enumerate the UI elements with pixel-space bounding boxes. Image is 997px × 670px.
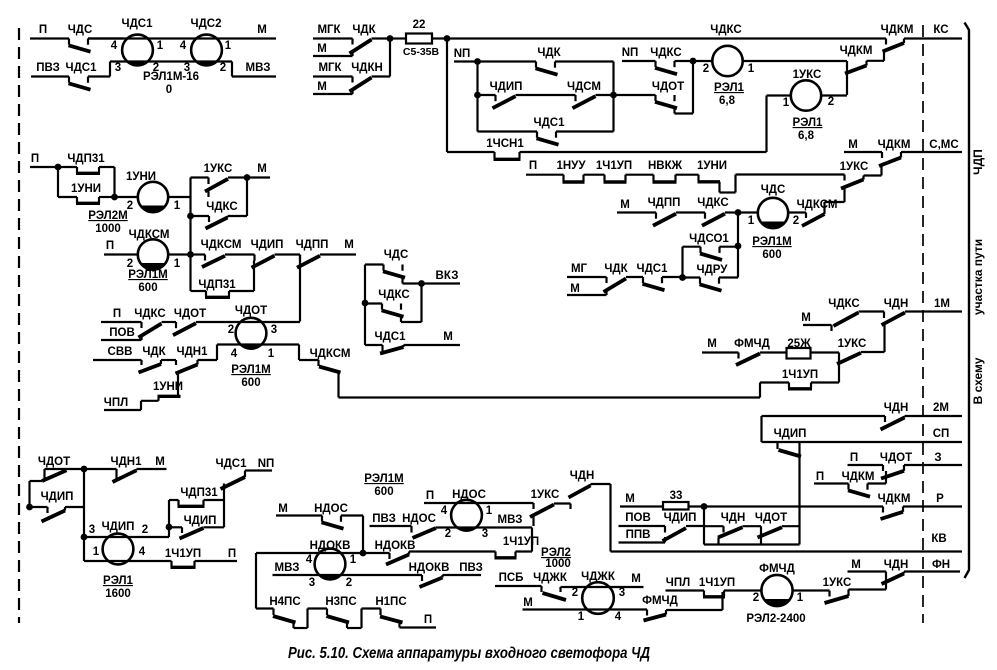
svg-text:РЭЛ1: РЭЛ1: [714, 82, 744, 94]
wire step: [867, 60, 885, 62]
riser: [441, 575, 443, 578]
wire top branch: [478, 60, 537, 62]
svg-text:1: 1: [268, 348, 275, 360]
svg-text:РЭЛ1М: РЭЛ1М: [231, 364, 270, 376]
wire coil pin1: [743, 60, 848, 62]
svg-text:РЭЛ1М-16: РЭЛ1М-16: [143, 71, 199, 83]
contact НДОКВ: [386, 555, 409, 565]
contact 1УКС: [825, 596, 849, 603]
tick: [410, 526, 412, 533]
riser: [903, 572, 905, 574]
wire top chord through: [84, 536, 169, 538]
tick: [181, 527, 183, 533]
svg-text:Н4ПС: Н4ПС: [269, 596, 300, 608]
changeover contact ЧДКН: [351, 77, 353, 83]
contact ЧДКСМ: [802, 214, 825, 226]
node: [187, 213, 194, 220]
coil ФМЧД (РЭЛ2-2400): [761, 575, 792, 606]
wire riser to chord: [216, 345, 218, 361]
contact ЧДН1: [176, 365, 198, 374]
contact ЧДН: [882, 574, 905, 585]
wire row2: [31, 75, 69, 77]
coil НДОКВ (РЭЛ2 1000?): [315, 549, 346, 580]
contact ЧДКСМ (front): [319, 367, 341, 373]
svg-text:2: 2: [828, 96, 834, 108]
svg-text:П: П: [424, 614, 432, 626]
svg-text:ЧПЛ: ЧПЛ: [666, 577, 690, 589]
svg-text:4: 4: [180, 40, 187, 52]
svg-text:1Ч1УП: 1Ч1УП: [782, 369, 818, 381]
wire: [275, 253, 301, 255]
svg-text:ЧДПП: ЧДПП: [648, 197, 681, 209]
contact 1НУУ (bar): [562, 175, 564, 182]
svg-text:ЧДС: ЧДС: [384, 249, 409, 261]
svg-text:ЧДКН: ЧДКН: [351, 62, 383, 74]
wire ЧПЛ lead: [666, 589, 705, 591]
wire: [191, 253, 206, 255]
contact 1Ч1УП (bar): [603, 175, 605, 182]
wire ВКЗ stub: [422, 282, 461, 284]
svg-text:ФМЧД: ФМЧД: [759, 563, 795, 575]
svg-text:РЭЛ2М: РЭЛ2М: [88, 210, 127, 222]
contact ЧДИП (back): [494, 95, 496, 101]
wire: [256, 607, 274, 609]
svg-text:ФМЧД: ФМЧД: [642, 595, 678, 607]
svg-text:ЧДС1: ЧДС1: [637, 263, 669, 275]
tick: [883, 312, 885, 319]
svg-text:2: 2: [793, 215, 799, 227]
wire right rail: [113, 167, 115, 197]
wire: [676, 211, 705, 213]
wire: [141, 400, 159, 402]
wire: [555, 60, 614, 62]
wire: [88, 37, 123, 39]
svg-text:МВЗ: МВЗ: [275, 562, 300, 574]
svg-text:ЧДКМ: ЧДКМ: [840, 45, 873, 57]
svg-text:НДОКВ: НДОКВ: [310, 540, 351, 552]
svg-text:ЧДИП: ЧДИП: [41, 491, 74, 503]
svg-text:С,МС: С,МС: [929, 139, 958, 151]
wire ППВ lead: [619, 541, 666, 543]
svg-text:6,8: 6,8: [798, 130, 815, 142]
wire riser/tick: [885, 572, 887, 590]
svg-text:ЧДС1: ЧДС1: [534, 117, 566, 129]
svg-text:1: 1: [578, 611, 585, 623]
contact 1ЧСН1 (bar): [493, 152, 495, 159]
tick: [207, 178, 209, 185]
tick: [43, 469, 45, 479]
wire М stub: [404, 344, 461, 346]
svg-text:РЭЛ1: РЭЛ1: [793, 117, 823, 129]
svg-text:М: М: [631, 573, 641, 585]
svg-text:4: 4: [615, 611, 622, 623]
wire to КС: [904, 37, 962, 39]
tick: [664, 526, 666, 533]
node left rail: [362, 300, 369, 307]
wire ПВЗ stub: [443, 574, 482, 576]
wire: [760, 351, 787, 353]
wire lower branch: [365, 302, 382, 304]
wire to МВЗ: [232, 75, 276, 77]
wire: [760, 381, 789, 383]
svg-text:ПОВ: ПОВ: [625, 512, 651, 524]
contact ЧДОТ: [881, 471, 904, 479]
wire to ФН: [904, 570, 960, 572]
wire left rail: [57, 167, 59, 197]
wire МВЗ bottom chord: [273, 574, 423, 576]
svg-text:NП: NП: [454, 48, 471, 60]
wire: [556, 130, 614, 132]
svg-text:П: П: [106, 240, 114, 252]
wire ЧДОТ lead: [614, 94, 656, 96]
wire branch: [191, 290, 207, 292]
svg-text:ПВЗ: ПВЗ: [36, 62, 60, 74]
svg-text:ЧДК: ЧДК: [537, 47, 561, 59]
svg-text:М: М: [344, 239, 354, 251]
wire vertical: [703, 507, 705, 545]
svg-text:РЭЛ1М: РЭЛ1М: [752, 236, 791, 248]
wire step: [861, 351, 885, 353]
riser 3: [900, 152, 902, 158]
contact 1Ч1УП (bar): [494, 552, 496, 558]
wire top chord through: [561, 586, 644, 588]
node junction: [387, 35, 394, 42]
wire: [99, 166, 115, 168]
svg-text:МВЗ: МВЗ: [498, 514, 523, 526]
wire: [704, 525, 724, 527]
contact ЧДП31 (bar) 2: [177, 500, 179, 506]
svg-text:РЭЛ1: РЭЛ1: [103, 575, 133, 587]
contact 1УНИ (bar, stepped): [697, 175, 699, 181]
node ЧДСО1: [735, 243, 742, 250]
wire bottom branch: [478, 130, 538, 132]
svg-text:600: 600: [241, 377, 260, 389]
tick: [208, 216, 210, 222]
svg-text:ЧДОТ: ЧДОТ: [755, 512, 787, 524]
wire МГК lead: [313, 37, 353, 39]
tick: [885, 39, 887, 45]
tick: [646, 610, 648, 616]
wire: [432, 37, 447, 39]
tick: [846, 61, 848, 67]
node ВКЗ: [418, 280, 425, 287]
svg-text:РЭЛ2-2400: РЭЛ2-2400: [746, 613, 805, 625]
tick: [388, 553, 390, 559]
node: [735, 209, 742, 216]
wire drop: [765, 96, 767, 153]
contact ЧДП31 (bar): [76, 167, 78, 173]
wire П lead: [848, 464, 884, 466]
wire ЧПЛ lead: [104, 409, 141, 411]
svg-text:ФМЧД: ФМЧД: [734, 338, 770, 350]
svg-text:1УКС: 1УКС: [840, 161, 869, 173]
wire: [675, 112, 694, 114]
svg-text:М: М: [707, 338, 717, 350]
riser from coil wire: [207, 192, 209, 198]
contact ЧДКС: [206, 218, 228, 229]
node М: [244, 174, 251, 181]
wire to coil: [675, 60, 714, 62]
svg-text:ЧДИП: ЧДИП: [251, 239, 284, 251]
wire: [409, 550, 496, 552]
wire long vertical: [798, 443, 800, 545]
wire: [225, 253, 255, 255]
wire bottom chord: [217, 343, 299, 345]
tick: [843, 175, 845, 181]
svg-text:ЧДК: ЧДК: [142, 346, 166, 358]
wire: [683, 276, 701, 278]
contact ФМЧД: [644, 615, 667, 621]
svg-text:ЧДКС: ЧДКС: [828, 298, 859, 310]
wire riser 2: [838, 359, 840, 383]
svg-text:ЧПЛ: ЧПЛ: [104, 397, 128, 409]
contact Н4ПС: [272, 609, 274, 616]
contact 1Ч1УП (bar) 2: [703, 591, 705, 597]
wire: [198, 359, 218, 361]
tick: [881, 152, 883, 158]
contact ЧДКМ (front): [847, 484, 849, 490]
wire step right: [231, 62, 233, 77]
wire riser to ЧДИП tick: [253, 261, 255, 292]
riser: [160, 360, 162, 364]
svg-text:С5-35В: С5-35В: [403, 46, 440, 58]
riser/tick: [760, 526, 762, 544]
tick: [46, 507, 48, 513]
wire row1 through coils: [88, 37, 276, 39]
svg-text:ФН: ФН: [932, 559, 950, 571]
svg-text:ЧДН: ЧДН: [884, 402, 909, 414]
wire: [626, 276, 643, 278]
svg-text:ЧДП: ЧДП: [971, 149, 985, 175]
svg-text:1УКС: 1УКС: [823, 577, 852, 589]
contact ЧДС (front): [382, 265, 384, 271]
wire drop to ЧДОТ coil: [299, 255, 301, 322]
riser 2: [880, 166, 882, 176]
contact ЧДКМ: [879, 158, 901, 167]
wire: [162, 321, 177, 323]
wire top rail ЧДКС: [447, 37, 886, 39]
svg-text:2: 2: [228, 324, 234, 336]
wire: [683, 246, 701, 248]
wire to coil: [115, 196, 138, 198]
svg-text:600: 600: [138, 282, 157, 294]
wire lower lead: [30, 480, 43, 482]
wire: [30, 506, 48, 508]
wire МГ lead: [567, 276, 607, 278]
coil ЧДИП (РЭЛ1 1600): [103, 534, 134, 565]
svg-text:ЧДКС: ЧДКС: [697, 197, 728, 209]
wire drop: [401, 278, 403, 284]
svg-text:1: 1: [225, 40, 232, 52]
wire to coil through: [196, 321, 300, 323]
svg-text:ЧДС1: ЧДС1: [122, 18, 154, 30]
wire П lead top chord: [424, 502, 534, 504]
svg-text:ПВЗ: ПВЗ: [459, 562, 483, 574]
wire riser: [177, 374, 179, 397]
svg-text:З: З: [934, 452, 941, 464]
wire: [743, 525, 762, 527]
wire ПОВ lead: [619, 525, 666, 527]
svg-text:ЧДН1: ЧДН1: [111, 456, 143, 468]
contact ЧДСО1 (front): [699, 247, 701, 253]
svg-text:1УКС: 1УКС: [204, 163, 233, 175]
wire top branch: [191, 176, 209, 178]
svg-text:1: 1: [350, 554, 357, 566]
svg-text:СП: СП: [933, 428, 950, 440]
wire step: [864, 174, 882, 176]
svg-text:П: П: [529, 160, 537, 172]
riser: [135, 469, 137, 470]
tick: [115, 469, 117, 479]
wire: [104, 253, 138, 255]
tick: [421, 575, 423, 581]
svg-text:1: 1: [93, 546, 100, 558]
riser: [903, 465, 905, 471]
wire СВВ lead: [93, 359, 142, 361]
svg-text:1ЧСН1: 1ЧСН1: [486, 138, 524, 150]
svg-text:1НУУ: 1НУУ: [556, 160, 586, 172]
wire drop to ПВЗ row: [532, 514, 534, 526]
wire top branch: [58, 166, 77, 168]
contact Н3ПС: [326, 609, 328, 616]
wire step: [591, 483, 611, 485]
wire: [662, 276, 683, 278]
svg-text:1УКС: 1УКС: [531, 489, 560, 501]
svg-text:ЧДКМ: ЧДКМ: [881, 24, 914, 36]
wire pin1: [168, 253, 191, 255]
contact 1УНИ (bar): [158, 395, 181, 398]
wire М stub: [247, 176, 270, 178]
wire vertical: [83, 469, 85, 537]
riser: [847, 590, 849, 597]
svg-text:ЧДС: ЧДС: [68, 24, 93, 36]
wire riser: [885, 471, 887, 484]
svg-text:ЧДН: ЧДН: [570, 470, 595, 482]
node: [679, 274, 686, 281]
svg-text:М: М: [155, 456, 165, 468]
svg-text:2: 2: [127, 200, 133, 212]
svg-text:1: 1: [157, 40, 164, 52]
svg-text:2: 2: [142, 524, 148, 536]
svg-text:3: 3: [115, 62, 121, 74]
wire 2М rail: [762, 415, 886, 417]
svg-text:3: 3: [271, 324, 277, 336]
wire: [596, 94, 614, 96]
svg-text:НДОС: НДОС: [314, 503, 348, 515]
contact 1Ч1УП (bar) 3: [170, 561, 172, 567]
svg-text:ЧДП31: ЧДП31: [67, 153, 105, 165]
contact ЧДОТ: [42, 470, 67, 481]
contact 1УКС: [530, 505, 554, 518]
svg-text:1: 1: [174, 258, 181, 270]
node: [81, 466, 88, 473]
contact ЧДН: [718, 527, 743, 537]
wire riser from М chain: [883, 325, 885, 352]
svg-text:ЧДОТ: ЧДОТ: [880, 452, 912, 464]
riser: [865, 61, 867, 66]
riser: [823, 202, 825, 214]
svg-text:участка пути: участка пути: [971, 239, 985, 315]
wire: [161, 359, 176, 361]
wire step: [157, 396, 159, 401]
svg-text:НДОС: НДОС: [402, 513, 436, 525]
wire drop: [362, 516, 364, 554]
wire: [84, 468, 117, 470]
riser 2: [883, 52, 885, 61]
contact ЧДОТ (back): [175, 322, 177, 328]
contact 1Ч1УП (bar): [788, 383, 790, 389]
wire mid branch: [478, 94, 496, 96]
wire: [666, 609, 723, 611]
wire: [403, 282, 422, 284]
svg-text:М: М: [848, 139, 858, 151]
svg-text:В схему: В схему: [971, 357, 985, 404]
wire: [719, 276, 738, 278]
wire: [516, 550, 533, 552]
changeover contact ЧДИП: [664, 537, 666, 543]
wire pin1: [767, 94, 792, 96]
wire right riser: [223, 484, 225, 528]
resistor 22 С5-35В: [406, 34, 432, 44]
svg-text:1: 1: [783, 97, 790, 109]
wire СП rail: [762, 441, 963, 443]
tick: [737, 353, 739, 359]
wire pin2: [788, 211, 806, 213]
svg-text:ЧДКС: ЧДКС: [206, 201, 237, 213]
wire drop: [673, 108, 675, 114]
svg-text:ЧДИП: ЧДИП: [664, 512, 697, 524]
node: [55, 164, 62, 171]
wire М lead: [567, 294, 607, 296]
coil ЧДС (РЭЛ1М 600): [758, 198, 788, 228]
svg-text:ЧДОТ: ЧДОТ: [38, 456, 70, 468]
tick: [830, 325, 832, 331]
wire ВКЗ left rail: [364, 265, 366, 340]
wire: [584, 174, 605, 176]
wire М lead: [848, 570, 887, 572]
wire: [720, 246, 739, 248]
wire top branch: [365, 263, 384, 265]
svg-text:П: П: [113, 308, 121, 320]
tick: [204, 255, 206, 261]
svg-text:РЭЛ1М: РЭЛ1М: [364, 473, 403, 485]
svg-text:КС: КС: [933, 24, 948, 36]
svg-text:2: 2: [703, 63, 709, 75]
svg-text:ЧДКМ: ЧДКМ: [878, 139, 911, 151]
right boundary dashed line: [922, 25, 924, 623]
tick 2: [559, 587, 561, 592]
tick: [569, 504, 571, 510]
svg-text:4: 4: [231, 348, 238, 360]
wire riser to М node: [246, 178, 248, 217]
wire М stub: [320, 253, 356, 255]
wire Р rail: [689, 505, 884, 507]
wire: [65, 506, 84, 508]
node mid right: [610, 92, 617, 99]
contact ЧДС1 2: [221, 477, 246, 489]
riser: [717, 538, 719, 545]
svg-text:Рис. 5.10. Схема аппаратуры вх: Рис. 5.10. Схема аппаратуры входного све…: [288, 645, 650, 662]
contact ЧДИП (front): [779, 450, 802, 457]
node coil: [81, 534, 88, 541]
contact Н1ПС: [379, 609, 381, 616]
svg-text:1УКС: 1УКС: [838, 338, 867, 350]
svg-text:4: 4: [306, 554, 313, 566]
svg-text:ЧДП31: ЧДП31: [180, 487, 218, 499]
svg-text:600: 600: [374, 486, 393, 498]
svg-text:3: 3: [309, 577, 315, 589]
svg-text:ПВЗ: ПВЗ: [372, 513, 396, 525]
